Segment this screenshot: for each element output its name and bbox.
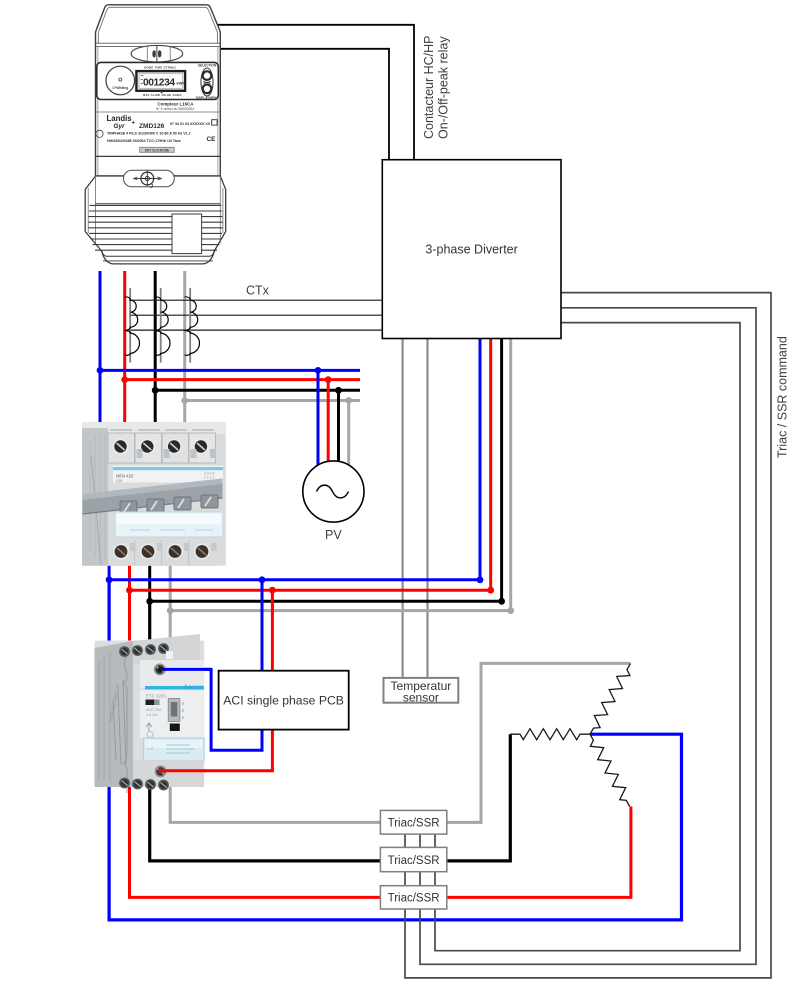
contactor bottom screws — [119, 778, 130, 789]
resistor heater L1 lower diagonal — [590, 734, 630, 806]
meter bottom cap lines — [101, 251, 215, 257]
contactor K1 Hager ETC425 — [95, 634, 205, 793]
wire breaker output blue — [108, 555, 111, 580]
CT L2 core line — [160, 288, 162, 363]
CT-SECTION — [125, 288, 200, 363]
svg-text:1 1 1 1: 1 1 1 1 — [204, 476, 214, 480]
node bus1 black left — [152, 387, 159, 394]
svg-text:kWh: kWh — [177, 81, 186, 86]
wire SSR command 1 — [405, 293, 771, 978]
svg-text:hager: hager — [196, 466, 208, 471]
meter nameplate — [96, 111, 221, 113]
wire bus1 gray — [185, 399, 360, 402]
node bus2 red right — [487, 587, 494, 594]
breaker top bumps — [110, 429, 214, 431]
breaker window panel — [115, 512, 223, 537]
contactor toggle — [168, 699, 180, 722]
node contactor A1 — [158, 667, 163, 672]
contactor hager stripe — [145, 686, 204, 689]
contactor coil terminal screw A1 — [154, 663, 166, 675]
meter LCD — [136, 71, 185, 91]
node bus2 red left — [126, 587, 133, 594]
breaker top terminals — [108, 433, 216, 463]
breaker left side panel — [82, 428, 108, 566]
contactor upper face — [140, 660, 204, 688]
meter display panel — [97, 62, 219, 99]
svg-text:ETC 425S: ETC 425S — [146, 694, 166, 699]
meter Landis+Gyr ZMD126 — [85, 5, 226, 264]
svg-text:HW43/02/043B 03/200: HW43/02/043B 03/2004 TCC:179Hb 1/3 Taxe — [107, 139, 181, 143]
node bus2 gray left — [167, 607, 174, 614]
wire phase2 black: meter to breaker — [154, 271, 157, 430]
svg-text:MFN 420: MFN 420 — [116, 474, 134, 479]
meter lower shell — [85, 176, 226, 264]
HEATER-SECTION — [510, 663, 630, 806]
svg-text:+: + — [132, 121, 136, 127]
wire bus2 red — [130, 589, 491, 592]
node bus2 blue ACI tap — [259, 576, 266, 583]
svg-text:Compteur L16CA: Compteur L16CA — [158, 101, 195, 106]
meter button bar — [140, 147, 175, 152]
node bus1 black PV tap — [335, 387, 342, 394]
wire PV drop red — [327, 380, 330, 462]
wire CT secondary 2 — [129, 314, 382, 316]
wire contactor A1 stub blue — [160, 668, 211, 671]
label Contacteur HC/HP On-/Off-peak relay — [422, 35, 451, 139]
wire PV drop gray — [347, 401, 350, 466]
wire breaker output gray — [169, 555, 172, 611]
box Triac/SSR 3 — [380, 886, 446, 909]
breaker toggle bar — [83, 479, 223, 515]
node bus2 black left — [146, 598, 153, 605]
svg-text:Triac/SSR: Triac/SSR — [388, 818, 440, 830]
wire bus2 blue — [109, 578, 480, 581]
wire PV drop black — [337, 390, 340, 461]
resistor heater L3 upper diagonal — [590, 663, 631, 734]
breaker label band — [113, 466, 223, 483]
node bus2 blue right — [477, 576, 484, 583]
contactor top screws — [119, 646, 130, 657]
resistor heater L2 horizontal — [510, 729, 590, 740]
DOTS-SECTION — [97, 367, 515, 614]
meter terminal cover ridges — [89, 205, 223, 250]
wire temperature sensor 2 — [426, 339, 428, 678]
node bus2 gray right — [507, 607, 514, 614]
svg-text:Triac/SSR: Triac/SSR — [388, 855, 440, 867]
node bus1 red left — [121, 376, 128, 383]
svg-text:C+Whiting: C+Whiting — [112, 86, 128, 90]
wire bus1 blue — [100, 369, 360, 372]
circuit breaker Q1 Hager MCN420 4P — [82, 422, 226, 566]
wire temperature sensor 1 — [402, 339, 404, 678]
svg-text:sensor: sensor — [403, 690, 439, 704]
wire Triac1 to heater L3 — [447, 663, 631, 822]
svg-text:Triac / SSR command: Triac / SSR command — [776, 336, 790, 458]
screw N bottom — [194, 544, 210, 560]
node bus2 blue left — [106, 576, 113, 583]
wire SSR command 3 — [435, 323, 740, 951]
screw L1 bottom — [113, 544, 129, 560]
wire diverter output black — [500, 339, 503, 602]
wire ACI loop blue — [160, 580, 262, 750]
breaker body — [82, 422, 226, 566]
svg-text:TRIPHASE 4 FILS 3x230/40: TRIPHASE 4 FILS 3x230/400 V 10-80 A 50 H… — [107, 132, 191, 136]
svg-text:Gyr: Gyr — [114, 123, 126, 130]
AC sine symbol — [317, 485, 349, 498]
svg-text:C20: C20 — [116, 479, 122, 483]
wire bus2 gray — [170, 609, 511, 612]
svg-text:ENT CLR MORE: ENT CLR MORE — [145, 148, 169, 152]
meter body outline — [96, 5, 221, 176]
svg-text:N° 3 xxxxxx du 04/09/2004: N° 3 xxxxxx du 04/09/2004 — [156, 107, 194, 111]
svg-text:ODBE TIME STRING: ODBE TIME STRING — [144, 65, 177, 69]
wire SSR command 2 — [420, 308, 756, 965]
meter seal oval — [131, 45, 183, 62]
svg-text:Landis: Landis — [107, 114, 133, 123]
wire HC/HP relay command 1 — [217, 25, 415, 161]
node bus1 red PV tap — [325, 376, 332, 383]
node bus1 gray left — [181, 397, 188, 404]
svg-text:B20 ALMD RGHE K9HE: B20 ALMD RGHE K9HE — [143, 93, 182, 97]
svg-text:CE: CE — [207, 136, 217, 143]
CT L2 winding — [155, 297, 170, 355]
CT L1 winding — [125, 297, 140, 355]
wire PV drop blue — [317, 370, 320, 465]
svg-text:PV: PV — [325, 528, 342, 542]
svg-text:Contacteur HC/HP: Contacteur HC/HP — [422, 35, 436, 139]
wire HC/HP relay command 2 — [220, 49, 390, 161]
wire Triac3 to heater L1 — [447, 807, 631, 898]
node bus1 gray PV tap — [345, 397, 352, 404]
svg-text:N° 34 01 63 XXXXXX XX: N° 34 01 63 XXXXXX XX — [170, 122, 211, 126]
wire black to Triac2 — [150, 601, 381, 861]
meter seal glyph — [152, 50, 161, 57]
breaker bottom terminals — [108, 540, 218, 566]
meter body inner line — [98, 7, 217, 43]
svg-text:On-/Off-peak relay: On-/Off-peak relay — [436, 36, 450, 139]
wire diverter output red — [489, 339, 492, 591]
wire neutral blue to heater star point — [109, 580, 681, 920]
svg-text:ZMD126: ZMD126 — [139, 123, 165, 130]
node bus1 blue left — [97, 367, 104, 374]
CT L1 core line — [129, 288, 131, 363]
svg-text:ACI single phase PCB: ACI single phase PCB — [223, 694, 344, 708]
svg-text:3-phase Diverter: 3-phase Diverter — [425, 243, 517, 257]
wire Triac2 to heater L2 — [447, 734, 511, 861]
svg-text:I \ II: I \ II — [147, 747, 153, 751]
wire bus1 red — [125, 378, 360, 381]
wire breaker output black — [148, 555, 151, 601]
screw L3 top — [166, 439, 182, 455]
node contactor A2 — [158, 768, 163, 773]
wire diverter output gray — [509, 339, 512, 611]
svg-text:SELECTION: SELECTION — [198, 64, 217, 68]
meter dial circle — [106, 66, 135, 95]
box Triac/SSR 2 — [380, 847, 446, 871]
wire neutral blue: meter to breaker — [99, 271, 102, 430]
CT L3 core line — [189, 288, 191, 363]
contactor lower block — [133, 760, 204, 787]
meter seal band line — [96, 43, 221, 46]
meter screw stadium — [124, 170, 175, 187]
svg-text:Triac/SSR: Triac/SSR — [388, 893, 440, 905]
meter cover tab — [172, 214, 202, 254]
screw L2 bottom — [140, 544, 156, 560]
node bus2 black right — [498, 598, 505, 605]
svg-text:DISPLAYMENT: DISPLAYMENT — [196, 96, 219, 100]
screw L1 top — [113, 439, 129, 455]
wire phase3 gray: meter to breaker — [183, 271, 186, 430]
wire CT secondary 3 — [129, 329, 382, 331]
contactor body — [95, 641, 205, 788]
meter selection buttons — [201, 68, 213, 96]
screw L2 top — [140, 439, 156, 455]
svg-text:4NO 25A: 4NO 25A — [146, 708, 162, 712]
wire diverter output blue — [479, 339, 482, 580]
svg-text:CTx: CTx — [246, 284, 270, 298]
node bus1 blue PV tap — [315, 367, 322, 374]
wire CT secondary 1 — [129, 299, 382, 301]
CT L3 winding — [185, 297, 200, 355]
wire bus2 black — [150, 600, 502, 603]
svg-text:1.6 kW: 1.6 kW — [146, 713, 158, 717]
contactor label window — [144, 738, 205, 761]
contactor mid face — [140, 690, 204, 738]
contactor coil terminal screw A2 — [155, 765, 167, 777]
wire bus1 black — [155, 389, 360, 392]
meter mid separator — [96, 155, 221, 157]
wire red to Triac3 — [130, 590, 381, 897]
AC source PV circle — [303, 461, 364, 522]
box 3-phase Diverter U1 — [382, 160, 561, 339]
breaker pole toggles — [120, 501, 137, 514]
screw L3 bottom — [167, 544, 183, 560]
node bus2 red ACI tap — [269, 587, 276, 594]
contactor top block — [133, 634, 200, 664]
wire breaker output red — [128, 555, 131, 590]
wire ACI loop red — [161, 590, 273, 771]
wire gray to Triac1 — [170, 611, 380, 823]
screw N top — [193, 439, 209, 455]
svg-text:001234: 001234 — [143, 77, 175, 88]
wire contactor A2 stub red — [161, 769, 206, 772]
box Triac/SSR 1 — [380, 810, 446, 834]
contactor left side panel — [95, 641, 134, 787]
box Temperatur sensor — [384, 678, 459, 704]
wire phase1 red: meter to breaker — [123, 271, 126, 430]
box ACI single phase PCB — [219, 671, 349, 730]
